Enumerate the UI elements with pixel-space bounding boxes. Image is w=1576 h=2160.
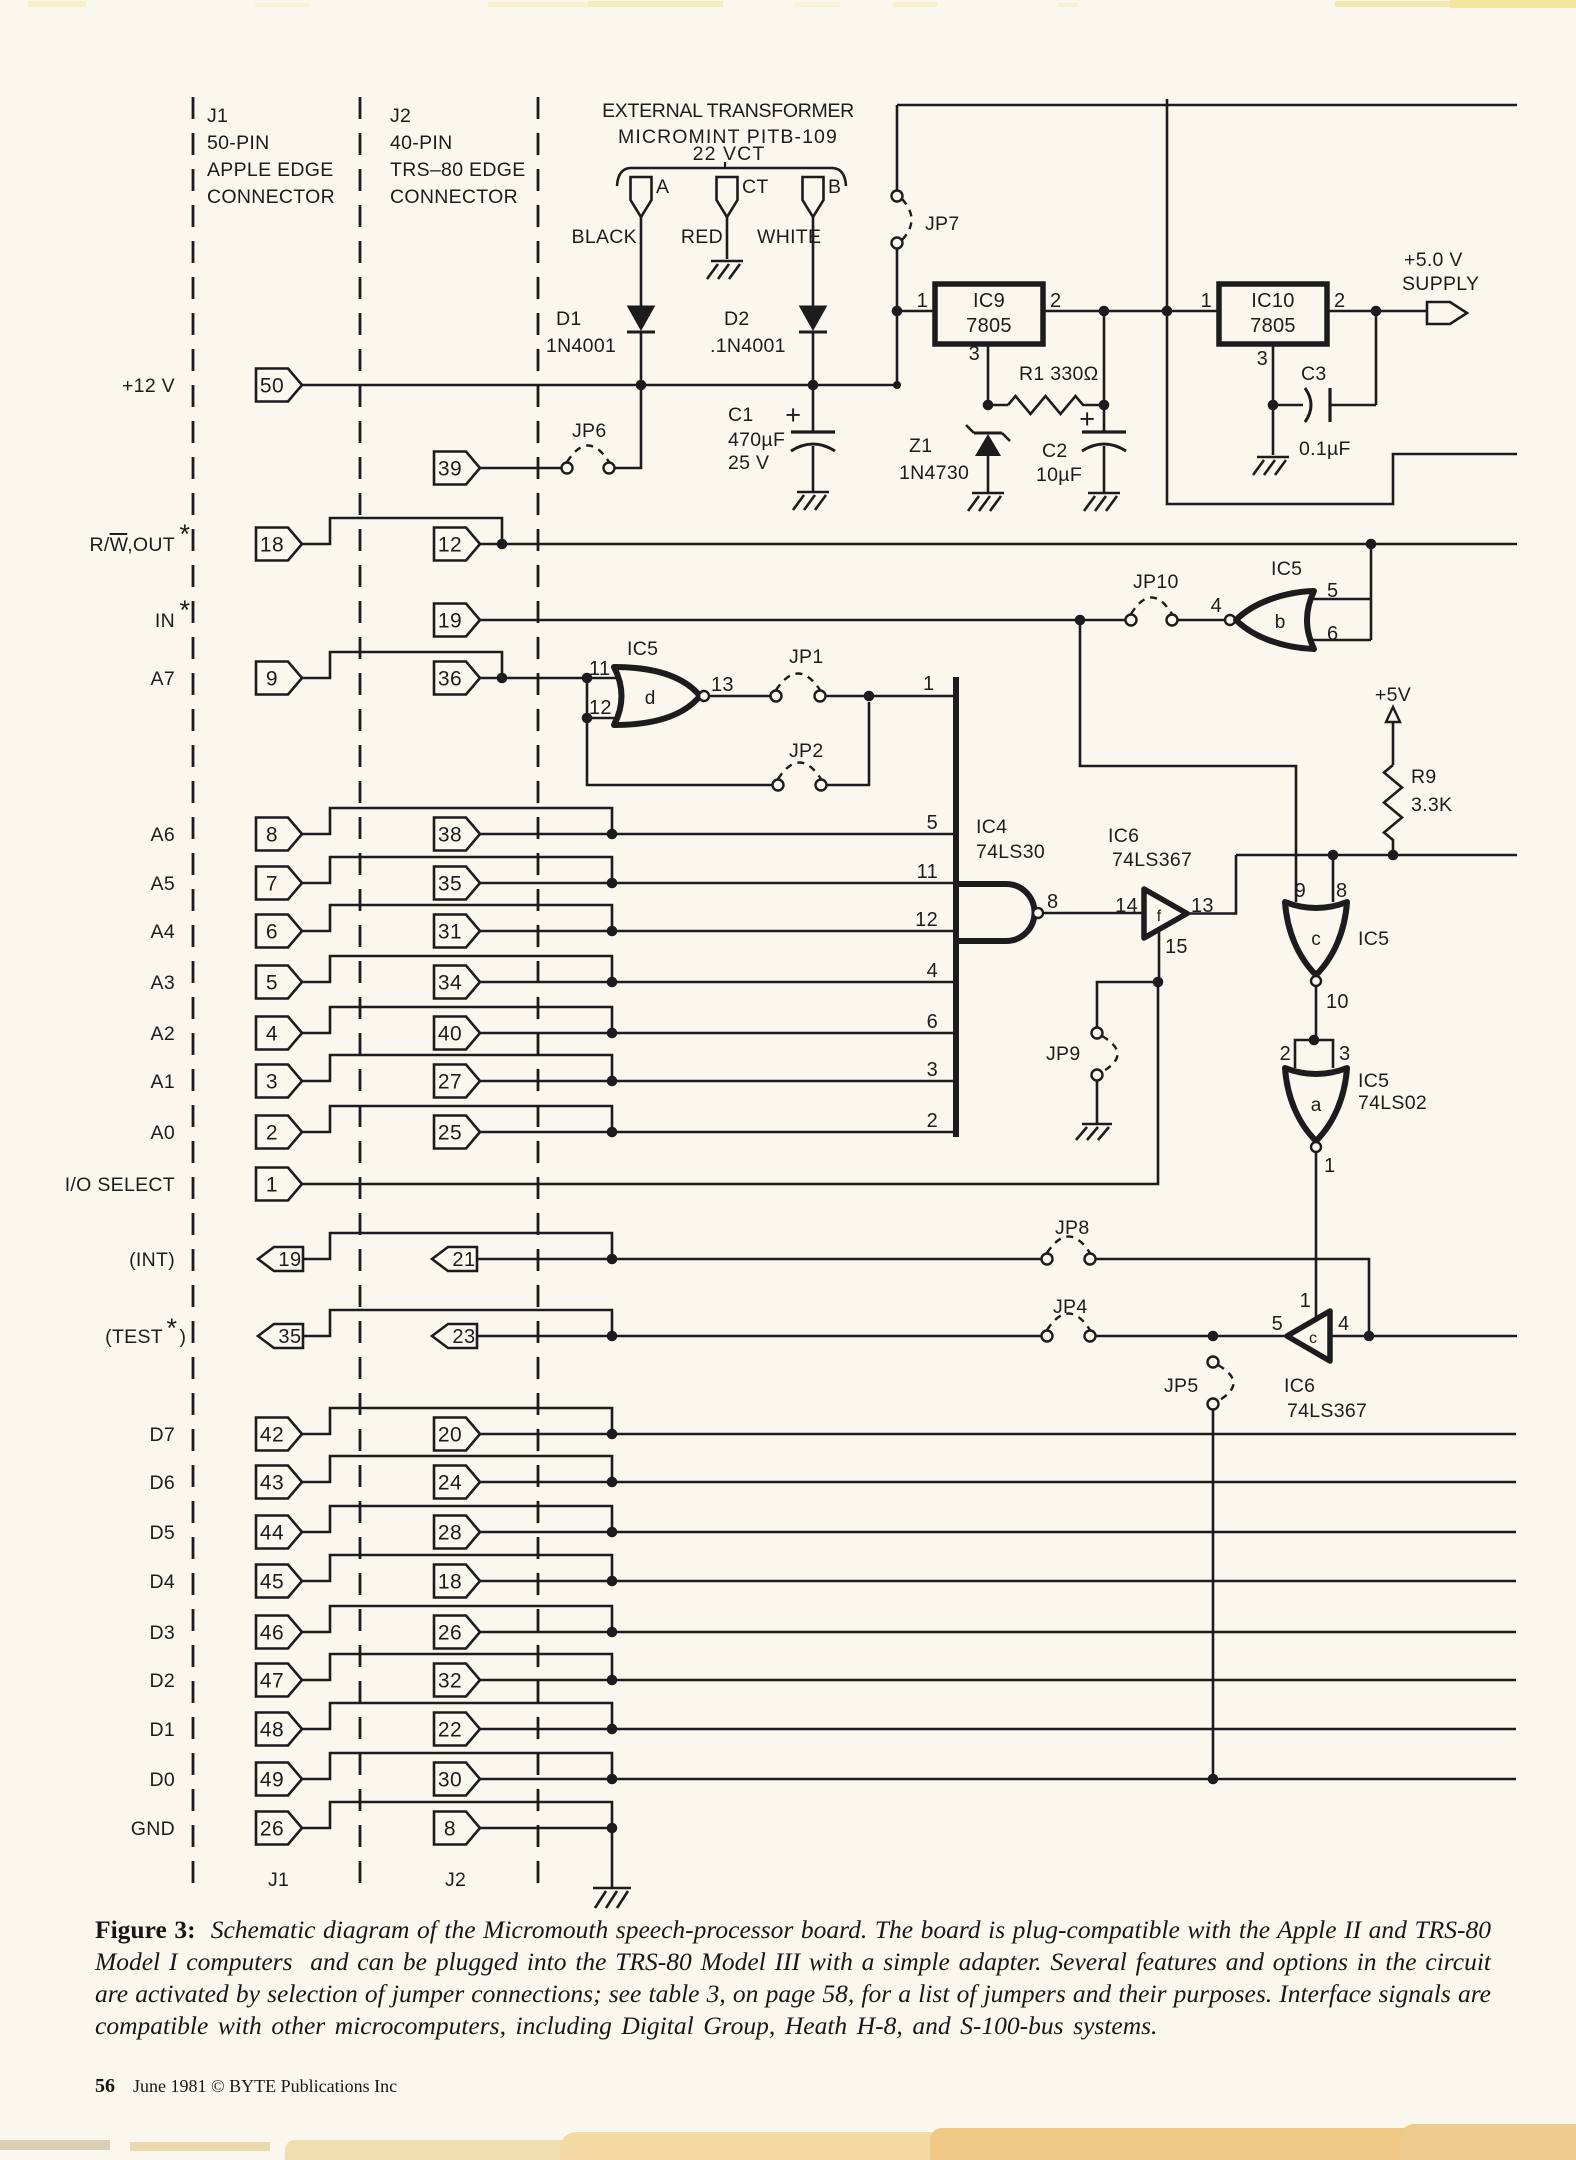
svg-text:APPLE EDGE: APPLE EDGE [207,159,334,181]
svg-text:3.3K: 3.3K [1411,794,1452,816]
svg-text:A7: A7 [151,668,175,690]
svg-text:49: 49 [260,1769,284,1792]
svg-text:D4: D4 [149,1571,175,1593]
svg-text:A6: A6 [151,824,175,846]
svg-text:D6: D6 [149,1472,175,1494]
svg-text:74LS02: 74LS02 [1358,1092,1427,1114]
svg-text:Z1: Z1 [909,435,932,457]
svg-text:3: 3 [969,343,980,365]
svg-text:D5: D5 [149,1522,175,1544]
svg-text:D1: D1 [556,308,582,330]
svg-text:25 V: 25 V [728,452,769,474]
svg-text:18: 18 [438,1571,462,1594]
svg-text:IC5: IC5 [1271,558,1302,580]
svg-text:+5V: +5V [1375,684,1411,706]
svg-text:12: 12 [438,534,462,557]
svg-text:1: 1 [1324,1155,1335,1177]
svg-text:30: 30 [438,1769,462,1792]
svg-text:14: 14 [1115,895,1138,917]
svg-text:C1: C1 [728,404,754,426]
svg-text:JP5: JP5 [1164,1375,1199,1397]
svg-text:A5: A5 [151,873,175,895]
svg-text:3: 3 [266,1071,278,1094]
svg-text:JP9: JP9 [1046,1043,1081,1065]
svg-text:1N4001: 1N4001 [546,335,616,357]
svg-text:11: 11 [917,861,938,883]
svg-text:+: + [1079,404,1095,434]
svg-text:EXTERNAL TRANSFORMER: EXTERNAL TRANSFORMER [602,100,854,122]
svg-text:26: 26 [438,1622,462,1645]
svg-text:RED: RED [681,226,723,248]
svg-text:JP6: JP6 [572,420,607,442]
svg-text:1: 1 [923,673,934,695]
svg-text:44: 44 [260,1522,284,1545]
svg-text:A4: A4 [151,921,175,943]
svg-text:2: 2 [1050,290,1061,312]
svg-text:3: 3 [1257,348,1268,370]
svg-text:46: 46 [260,1622,284,1645]
svg-text:*: * [179,519,190,549]
svg-text:26: 26 [260,1818,284,1841]
svg-text:IC5: IC5 [1358,928,1389,950]
svg-text:7805: 7805 [966,315,1012,337]
svg-text:IC5: IC5 [1358,1070,1389,1092]
svg-text:I/O SELECT: I/O SELECT [65,1174,175,1196]
svg-text:R9: R9 [1411,766,1437,788]
svg-text:J2: J2 [390,105,411,127]
svg-text:J1: J1 [207,105,228,127]
svg-text:50: 50 [260,375,284,398]
svg-text:b: b [1275,612,1286,633]
svg-text:21: 21 [452,1249,475,1271]
svg-text:+5.0 V: +5.0 V [1404,249,1463,271]
svg-text:1: 1 [1201,290,1212,312]
svg-text:48: 48 [260,1719,284,1742]
svg-text:A: A [656,176,669,198]
svg-text:IC5: IC5 [627,638,658,660]
svg-text:7: 7 [266,873,278,896]
svg-text:27: 27 [438,1071,462,1094]
svg-text:0.1µF: 0.1µF [1299,438,1351,460]
svg-text:7805: 7805 [1250,315,1296,337]
svg-text:JP10: JP10 [1133,571,1179,593]
svg-text:18: 18 [260,534,284,557]
svg-text:8: 8 [266,824,278,847]
svg-text:35: 35 [438,873,462,896]
svg-text:34: 34 [438,972,462,995]
svg-text:12: 12 [915,909,938,931]
svg-text:JP8: JP8 [1055,1217,1090,1239]
svg-text:42: 42 [260,1424,284,1447]
svg-text:5: 5 [927,812,938,834]
svg-text:6: 6 [927,1011,938,1033]
svg-text:10µF: 10µF [1036,464,1082,486]
svg-text:J2: J2 [445,1869,466,1891]
svg-text:JP2: JP2 [789,740,824,762]
svg-text:CONNECTOR: CONNECTOR [390,186,518,208]
svg-text:6: 6 [1327,623,1338,645]
svg-text:R/W,OUT: R/W,OUT [89,534,175,556]
svg-text:20: 20 [438,1424,462,1447]
svg-text:*: * [166,1313,177,1343]
svg-text:GND: GND [131,1818,175,1840]
svg-text:C2: C2 [1042,440,1068,462]
svg-text:D2: D2 [149,1670,175,1692]
svg-text:IN: IN [155,610,175,632]
svg-text:JP7: JP7 [925,213,960,235]
svg-text:2: 2 [927,1110,938,1132]
svg-text:.1N4001: .1N4001 [710,335,786,357]
svg-text:D2: D2 [724,308,750,330]
svg-text:(INT): (INT) [129,1249,175,1271]
svg-text:1: 1 [1300,1290,1311,1312]
svg-text:8: 8 [1336,880,1347,902]
svg-text:35: 35 [278,1326,301,1348]
svg-text:A0: A0 [151,1122,175,1144]
svg-text:WHITE: WHITE [757,226,821,248]
svg-text:74LS367: 74LS367 [1287,1400,1367,1422]
svg-text:IC6: IC6 [1108,825,1139,847]
svg-text:+: + [785,400,801,430]
svg-text:25: 25 [438,1122,462,1145]
svg-text:2: 2 [1334,290,1345,312]
svg-text:1: 1 [917,290,928,312]
svg-text:A2: A2 [151,1023,175,1045]
svg-text:): ) [180,1326,187,1348]
svg-text:D1: D1 [149,1719,175,1741]
svg-text:D3: D3 [149,1622,175,1644]
svg-text:5: 5 [266,972,278,995]
svg-text:IC4: IC4 [976,816,1007,838]
svg-text:D0: D0 [149,1769,175,1791]
svg-text:74LS30: 74LS30 [976,841,1045,863]
svg-text:31: 31 [438,921,462,944]
svg-text:19: 19 [278,1249,301,1271]
svg-text:28: 28 [438,1522,462,1545]
svg-text:74LS367: 74LS367 [1112,849,1192,871]
svg-text:8: 8 [1047,891,1058,913]
svg-text:39: 39 [438,458,462,481]
svg-text:23: 23 [452,1326,475,1348]
svg-text:CONNECTOR: CONNECTOR [207,186,335,208]
svg-text:43: 43 [260,1472,284,1495]
svg-text:d: d [645,688,656,709]
svg-text:4: 4 [1211,595,1222,617]
svg-text:(TEST: (TEST [105,1326,163,1348]
svg-text:50-PIN: 50-PIN [207,132,270,154]
svg-text:SUPPLY: SUPPLY [1402,273,1479,295]
svg-text:D7: D7 [149,1424,175,1446]
svg-text:11: 11 [589,658,610,680]
svg-text:15: 15 [1165,936,1188,958]
svg-text:5: 5 [1272,1313,1283,1335]
svg-text:J1: J1 [268,1869,289,1891]
svg-text:1: 1 [266,1174,278,1197]
svg-text:R1 330Ω: R1 330Ω [1019,363,1099,385]
svg-text:13: 13 [711,674,734,696]
svg-text:B: B [828,176,841,198]
svg-text:*: * [179,595,190,625]
svg-text:38: 38 [438,824,462,847]
svg-text:A3: A3 [151,972,175,994]
svg-text:JP4: JP4 [1053,1296,1088,1318]
svg-text:a: a [1311,1095,1322,1116]
svg-text:22: 22 [438,1719,462,1742]
svg-text:3: 3 [1339,1043,1350,1065]
svg-text:24: 24 [438,1472,462,1495]
svg-text:12: 12 [589,697,612,719]
svg-text:c: c [1311,929,1321,950]
svg-text:36: 36 [438,668,462,691]
svg-text:2: 2 [266,1122,278,1145]
svg-text:JP1: JP1 [789,646,824,668]
svg-text:c: c [1309,1330,1317,1347]
svg-text:TRS–80 EDGE: TRS–80 EDGE [390,159,526,181]
svg-text:IC6: IC6 [1284,1375,1315,1397]
svg-text:CT: CT [742,176,769,198]
svg-text:f: f [1157,908,1162,925]
svg-text:45: 45 [260,1571,284,1594]
svg-text:32: 32 [438,1670,462,1693]
svg-text:9: 9 [1295,880,1306,902]
svg-text:BLACK: BLACK [572,226,637,248]
svg-text:470µF: 470µF [728,429,785,451]
svg-text:22 VCT: 22 VCT [693,143,766,165]
svg-text:47: 47 [260,1670,284,1693]
svg-text:9: 9 [266,668,278,691]
svg-text:IC10: IC10 [1251,290,1294,312]
svg-text:40: 40 [438,1023,462,1046]
svg-text:4: 4 [927,960,938,982]
svg-text:6: 6 [266,921,278,944]
svg-text:3: 3 [927,1059,938,1081]
svg-text:4: 4 [266,1023,278,1046]
svg-text:A1: A1 [151,1071,175,1093]
svg-text:C3: C3 [1301,363,1327,385]
svg-text:10: 10 [1326,991,1349,1013]
svg-text:2: 2 [1280,1043,1291,1065]
svg-text:40-PIN: 40-PIN [390,132,453,154]
svg-text:4: 4 [1338,1313,1349,1335]
svg-text:1N4730: 1N4730 [899,462,969,484]
svg-text:19: 19 [438,610,462,633]
svg-text:IC9: IC9 [973,290,1005,312]
svg-text:8: 8 [444,1818,456,1841]
svg-text:+12 V: +12 V [122,375,175,397]
